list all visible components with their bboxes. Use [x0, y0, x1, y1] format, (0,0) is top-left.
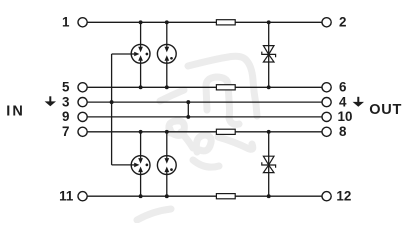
node row7-F4: [165, 130, 169, 134]
svg-text:9: 9: [62, 109, 69, 124]
svg-text:4: 4: [339, 94, 347, 109]
node row1-D1: [267, 20, 271, 24]
resistor R3 row 7: [216, 129, 235, 134]
svg-text:12: 12: [336, 188, 351, 203]
wire GDT column F3 leads: [140, 132, 142, 159]
gas discharge tube F4 (bottom right, 2-electrode): [157, 156, 176, 175]
node row1-F2: [165, 20, 169, 24]
wire jumper rows 3-9: [187, 102, 189, 117]
svg-text:6: 6: [339, 80, 346, 95]
gas discharge tube F3 (bottom left, 3-electrode): [131, 156, 150, 175]
wire trigger bottom horizontal: [112, 164, 135, 166]
svg-text:1: 1: [62, 15, 70, 30]
watermark logo: [137, 56, 257, 220]
svg-text:8: 8: [339, 124, 347, 139]
svg-text:7: 7: [62, 124, 69, 139]
node row3-jumper: [186, 100, 190, 104]
terminal 1: [78, 18, 87, 27]
wire trigger top horizontal: [112, 53, 135, 55]
resistor R1 row 1: [216, 20, 235, 25]
svg-text:10: 10: [338, 109, 353, 124]
TVS suppressor diode D2 (bottom): [262, 156, 276, 172]
terminal 12: [322, 192, 331, 201]
node row11-F4: [165, 194, 169, 198]
TVS suppressor diode D1 (top): [262, 46, 276, 62]
wire trigger vertical from node 3: [111, 54, 113, 165]
wire TVS top column: [268, 22, 270, 87]
wire row 11-12: [87, 195, 322, 197]
terminal 9: [78, 112, 87, 121]
terminal 8: [322, 127, 331, 136]
node row3-trigger: [110, 100, 114, 104]
node row7-F3: [139, 130, 143, 134]
svg-text:OUT: OUT: [369, 102, 402, 118]
wire row 9-10: [87, 116, 322, 118]
wire row 1-2: [87, 21, 322, 23]
svg-text:2: 2: [339, 15, 346, 30]
gas discharge tube F1 (top left, 3-electrode): [131, 44, 150, 63]
resistor R4 row 11: [216, 194, 235, 199]
node row1-F1: [139, 20, 143, 24]
wire row 5-6: [87, 86, 322, 88]
OUT direction arrow: [353, 97, 364, 107]
node row5-F2: [165, 85, 169, 89]
node row12-D2: [267, 194, 271, 198]
wire GDT column F4 leads: [166, 132, 168, 159]
wire row 7-8: [87, 131, 322, 133]
terminal 4: [322, 98, 331, 107]
gas discharge tube F2 (top right, 2-electrode): [157, 44, 176, 63]
svg-text:3: 3: [62, 94, 69, 109]
node row11-F3: [139, 194, 143, 198]
terminal 10: [322, 112, 331, 121]
wire GDT column F2 leads: [166, 22, 168, 47]
terminal 3: [78, 98, 87, 107]
svg-text:IN: IN: [6, 104, 25, 120]
terminal 11: [78, 192, 87, 201]
svg-text:5: 5: [62, 80, 70, 95]
terminal 7: [78, 127, 87, 136]
resistor R2 row 5: [216, 85, 235, 90]
node row9-jumper: [186, 115, 190, 119]
terminal 6: [322, 83, 331, 92]
IN direction arrow: [45, 96, 56, 106]
svg-text:11: 11: [59, 188, 74, 203]
terminal 2: [322, 18, 331, 27]
wire TVS bottom column: [268, 132, 270, 196]
node row5-F1: [139, 85, 143, 89]
wire row 3-4: [87, 101, 322, 103]
terminal 5: [78, 83, 87, 92]
node row6-D1: [267, 85, 271, 89]
wire GDT column F1 leads: [140, 22, 142, 47]
node row8-D2: [267, 130, 271, 134]
